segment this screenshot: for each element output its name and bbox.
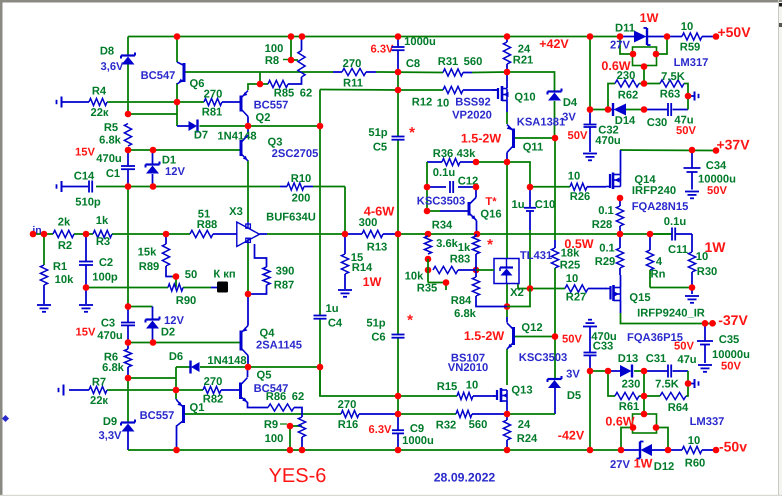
transistor Q5 [239,383,242,400]
svg-text:R87: R87 [274,280,295,292]
capacitor C2 [79,261,93,263]
tl431 X2 [494,259,519,284]
svg-text:LM317: LM317 [674,57,709,69]
svg-text:10k: 10k [55,274,74,286]
svg-text:3,3V: 3,3V [98,430,122,442]
svg-text:50V: 50V [676,125,696,137]
svg-text:BUF634U: BUF634U [266,212,316,224]
svg-text:-37V: -37V [718,312,748,328]
svg-text:D11: D11 [615,23,635,35]
ground C2 [79,304,93,306]
svg-text:Q6: Q6 [190,78,205,90]
wire R30 column [691,234,693,252]
svg-text:6.3V: 6.3V [368,424,392,436]
capacitor C1 [121,165,135,167]
wire D2 column [152,307,154,319]
svg-text:Q2: Q2 [256,112,271,124]
svg-text:R29: R29 [595,256,616,268]
resistor R28 [616,206,623,226]
svg-text:R88: R88 [197,219,218,231]
svg-text:R14: R14 [352,262,373,274]
svg-text:1k: 1k [96,215,109,227]
svg-text:+50V: +50V [717,24,751,40]
svg-text:*: * [409,125,415,142]
wire Q16 emitter to rail [476,221,478,235]
wire C33 column [589,327,591,352]
capacitor C31 [667,365,669,378]
svg-text:C35: C35 [719,334,740,346]
svg-text:15V: 15V [76,327,96,339]
transistor Q6 [183,63,186,82]
junction C12 [424,184,431,191]
svg-text:D4: D4 [563,97,578,109]
junction LM317 pins [630,51,637,58]
wire R27 row y=288.5 [530,288,565,290]
svg-text:IRFP240: IRFP240 [632,185,676,197]
svg-text:D5: D5 [567,390,581,402]
ground C32 [583,153,597,155]
svg-text:C30: C30 [647,117,668,129]
wire Q15 source to -37V rail [620,301,622,314]
wire R85 node to y=72 row [259,72,261,84]
junction D8 top rail [174,33,181,40]
wire row y=186.5 C14 to R10 [96,186,280,188]
zener D8 [121,54,135,56]
window border left/top [0,0,782,3]
svg-text:R62: R62 [618,90,639,102]
wire rail y=367 [176,366,190,368]
svg-text:470u: 470u [595,135,621,147]
svg-text:6.8k: 6.8k [102,362,125,374]
wire R87 hookup [255,244,267,267]
capacitor C35 [697,340,713,342]
wire R13 leads [345,233,362,235]
svg-text:R30: R30 [697,266,718,278]
wire +42V/+37V rail [620,149,716,152]
wire Q6 collector/emitter column x=177 [176,37,178,63]
svg-text:270: 270 [204,89,223,101]
svg-text:KSA1381: KSA1381 [517,117,566,129]
wire R89 tap to R90 [175,277,177,288]
svg-text:BC557: BC557 [254,100,289,112]
wire R9 bottom [301,437,303,450]
resistor R16 [341,410,359,417]
resistor R61 [615,392,639,399]
svg-text:50V: 50V [562,334,582,346]
zener D1 [146,163,160,165]
wire Q14 drain [620,150,622,175]
junction output R28 [617,231,624,238]
wire Q13 source to y=414 [506,401,508,414]
junction +50V [713,33,720,40]
svg-text:1u: 1u [511,199,524,211]
svg-text:*: * [407,312,413,329]
junction C8 top [395,33,402,40]
svg-text:T*: T* [485,196,497,208]
svg-text:R13: R13 [367,242,388,254]
svg-text:C1: C1 [106,168,120,180]
svg-text:Q13: Q13 [511,385,532,397]
resistor R81 [204,98,222,105]
wire R84 [475,270,477,277]
wire R85 left to Q2 emitter [248,84,268,90]
svg-text:R31: R31 [438,56,459,68]
wire Q3 leads [247,126,249,134]
wire y=414 row right [398,413,456,415]
junction Q2-Q3-D7 [245,123,252,130]
junction rail R34 [425,231,432,238]
wire R9 tap [290,425,302,427]
wire R6 segment [127,343,129,350]
svg-text:C33: C33 [593,341,614,353]
wire R81 leads [177,101,204,103]
svg-text:+42V: +42V [539,37,569,51]
wire x=176 column [175,367,177,399]
diode D7 [189,121,198,131]
junction in [30,231,37,238]
svg-text:Q1: Q1 [190,402,205,414]
svg-text:R11: R11 [343,78,363,90]
svg-text:R8: R8 [265,55,279,67]
svg-text:4-6W: 4-6W [364,204,395,219]
svg-text:К кп: К кп [213,269,235,281]
svg-text:BC547: BC547 [141,70,176,82]
junction C3-D2 bottom [125,339,132,346]
resistor R36 [442,158,460,165]
svg-text:Q3: Q3 [268,137,283,149]
wire Q4 collector to rail [247,356,249,368]
svg-text:VP2020: VP2020 [452,110,492,122]
junction R4-Q6 [174,99,181,106]
resistor R26 [570,183,587,190]
wire TL431 ref pin [518,284,530,289]
junction Q1 collector [173,447,180,454]
svg-text:230: 230 [617,70,636,82]
svg-text:1W: 1W [363,275,382,289]
svg-text:22к: 22к [90,395,108,407]
mosfet Q13 [496,390,498,400]
svg-text:50V: 50V [568,130,588,142]
resistor R7 [89,386,107,393]
resistor R60 [682,446,702,453]
scrollbar right edge [779,2,782,498]
junction R85-Q2 [257,81,264,88]
svg-text:270: 270 [204,376,223,388]
junction Q13-R24-R32 [504,411,511,418]
svg-text:Q12: Q12 [521,322,542,334]
svg-text:24: 24 [518,419,531,431]
svg-text:50: 50 [185,269,197,281]
capacitor C9 [392,429,404,431]
capacitor C11 [671,228,673,241]
ground Rn-R30 [685,295,699,297]
junction LM337 pins [641,411,648,418]
svg-text:R82: R82 [203,394,224,406]
capacitor C33 [584,352,597,354]
svg-text:R2: R2 [58,240,72,252]
svg-text:R86: R86 [266,391,287,403]
wire top +rail y=36.5 [128,36,620,38]
resistor R85 [268,80,288,87]
wire pin at R63 [688,95,694,97]
wire Q1 collector [176,426,178,451]
junction rail R13-R14 [342,231,349,238]
svg-text:1000u: 1000u [404,36,436,48]
svg-text:1N4148: 1N4148 [207,355,246,367]
wire R12 row y=90 [398,89,443,91]
svg-text:R60: R60 [685,458,706,470]
svg-text:R36: R36 [433,148,454,160]
resistor R88 [190,230,213,237]
wire y=72 to D4 column [507,72,555,91]
svg-text:VN2010: VN2010 [448,362,488,374]
wire base row Q6 y=72 [186,71,334,73]
svg-text:Q11: Q11 [523,142,544,154]
resistor R34 [424,236,431,254]
wire R34-R35 jog [427,259,429,283]
junction rail x398 [395,231,402,238]
wire R15 row y=396 [398,395,457,397]
wire Q16 collector column [475,187,477,198]
svg-text:Q5: Q5 [257,370,272,382]
svg-text:R64: R64 [668,402,689,414]
junction Q14 source [617,195,624,202]
resistor R27 [565,285,588,292]
wire R7 row y=390 [69,389,89,391]
resistor R31 [443,69,463,76]
svg-text:C11: C11 [668,244,688,256]
svg-text:R24: R24 [517,433,538,445]
svg-text:R34: R34 [432,220,453,232]
wire R89 column [165,234,167,244]
wire R8 bottom to R85 [296,77,302,84]
svg-text:1k: 1k [458,242,471,254]
regulator LM337 body [633,414,657,433]
junction rail-x320 bottom [317,364,324,371]
svg-text:TL431: TL431 [520,250,552,262]
wire R88 lead to opamp [213,233,237,235]
capacitor C10 [524,207,536,209]
junction R62-R63 [641,80,648,87]
svg-text:43k: 43k [457,148,476,160]
svg-text:12V: 12V [164,315,184,327]
wire D8 column x=128 top [127,37,129,55]
wire R35 row y=270 [458,269,476,271]
wire C14 lead [63,186,89,188]
wire D11 leads [620,36,635,38]
pin terminal R63 [694,92,696,101]
svg-text:LM337: LM337 [690,416,725,428]
junction C33 bottom [587,368,594,375]
wire R6-D6 jog y=378 [128,377,176,379]
ground R14 [338,289,352,291]
junction R8 tap [288,57,295,64]
junction R84-TL431 node [504,303,511,310]
junction C10 top [527,184,534,191]
svg-text:50V: 50V [707,185,727,197]
wire Q12 emitter to Q13 [506,349,508,385]
resistor R5 [124,124,131,147]
resistor R32 [456,410,472,417]
svg-text:Q16: Q16 [480,209,501,221]
svg-text:R25: R25 [560,260,581,272]
zener D5 [548,378,562,380]
svg-text:D9: D9 [103,416,117,428]
resistor R64 [660,392,686,399]
wire pin at R64 [688,383,694,385]
diode D12 zener 27V [641,444,653,456]
svg-text:510p: 510p [75,197,101,209]
junction D11 left [617,33,624,40]
svg-text:IRFP9240_IR: IRFP9240_IR [637,308,705,320]
junction R7-Q1 [173,387,180,394]
junction C8 bottom [395,69,402,76]
wire C2 column [85,234,87,262]
svg-text:3.6k: 3.6k [436,238,459,250]
svg-text:Rn: Rn [651,269,666,281]
svg-text:R28: R28 [592,219,613,231]
svg-text:1u: 1u [325,303,338,315]
junction R34 bottom [425,256,432,263]
svg-text:C10: C10 [535,199,556,211]
junction R64 pin [685,380,692,387]
wire R60 leads [668,449,682,451]
transistor Q12 [512,327,515,345]
svg-text:Q15: Q15 [629,292,650,304]
wire LM337 connections [621,428,633,451]
junction Q11 collector [504,159,511,166]
pin terminal R64 [694,379,696,388]
wire R14 column [344,234,346,254]
wire y=306.5 to D2 [128,306,153,308]
junction R21 bottom [504,69,511,76]
resistor R86 [268,404,294,411]
svg-text:D13: D13 [618,353,639,365]
svg-text:C9: C9 [410,423,424,435]
svg-text:R63: R63 [660,89,681,101]
resistor R29 [616,248,623,268]
svg-text:10: 10 [568,171,580,183]
resistor R21 [503,42,510,64]
svg-text:7.5K: 7.5K [655,379,679,391]
ground C35 [698,364,712,366]
wire mid column x=320 [320,89,398,92]
zener D2 [146,318,160,320]
junction R2-R3 [83,231,90,238]
svg-text:C4: C4 [328,318,343,330]
resistor R12 [443,86,463,93]
wire D1 column [152,150,154,165]
svg-text:200: 200 [292,193,311,205]
svg-text:230: 230 [622,379,641,391]
svg-text:15k: 15k [138,247,157,259]
junction R35 jog [443,279,450,286]
svg-text:12V: 12V [165,166,185,178]
svg-text:3V: 3V [566,369,580,381]
pin terminal R7 [63,385,65,396]
junction R35 right [473,267,480,274]
wire bottom -rail y=450 [128,449,621,451]
svg-text:10: 10 [688,435,700,447]
svg-text:390: 390 [276,266,295,278]
svg-text:C3: C3 [101,318,115,330]
resistor R25 [551,248,558,268]
transistor Q16 [468,202,471,216]
transistor Q11 [512,129,515,149]
svg-text:2SA1145: 2SA1145 [256,340,302,352]
svg-text:6.8k: 6.8k [454,308,477,320]
svg-text:R61: R61 [619,401,640,413]
wire x=507 TL431 column [506,162,508,240]
junction D13 row [605,368,612,375]
svg-text:51p: 51p [368,127,387,139]
wire R8 tap column [290,37,292,61]
svg-text:D8: D8 [100,46,114,58]
svg-text:1W: 1W [640,11,659,25]
resistor R6 [124,349,131,367]
svg-text:10: 10 [696,251,708,263]
svg-text:R9: R9 [264,419,278,431]
svg-text:62: 62 [300,88,312,100]
wire C12 row y=187 [427,186,446,188]
svg-text:0.5W: 0.5W [564,237,593,251]
capacitor C6 [392,334,405,336]
svg-text:51p: 51p [366,318,385,330]
svg-text:R10: R10 [291,173,312,185]
svg-text:0.1: 0.1 [598,205,614,217]
resistor R90 [168,284,183,291]
junction D12 left [618,447,625,454]
wire output rail y=234 [398,233,672,235]
svg-text:560: 560 [469,419,488,431]
zener D9 [121,421,135,423]
junction D7 feed [125,111,132,118]
wire R82 row [176,389,203,391]
svg-text:BSS92: BSS92 [455,97,490,109]
junction rail-x320 [317,123,324,130]
svg-text:R5: R5 [104,122,118,134]
svg-text:-42V: -42V [558,429,585,443]
wire R83 [475,234,477,236]
resistor R89 [162,244,169,266]
svg-text:560: 560 [464,56,483,68]
wire Q16 base [427,210,440,212]
wire R11 leads [333,71,342,73]
wire R16 leads [359,413,398,415]
junction R63 pin [685,93,692,100]
svg-text:2SC2705: 2SC2705 [272,148,319,160]
wire D14 C30 row y=109.5 [590,109,608,111]
svg-text:470u: 470u [97,330,123,342]
diode D13 [620,365,632,377]
capacitor C4 [314,315,327,317]
resistor R84 [472,277,479,296]
junction output Rn [647,231,654,238]
svg-text:X2: X2 [510,287,524,299]
wire Rn column [649,234,651,250]
svg-text:R26: R26 [570,191,591,203]
svg-text:R90: R90 [176,295,197,307]
svg-text:R3: R3 [96,236,110,248]
wire R90 row y=287.5 [86,287,168,289]
svg-text:D6: D6 [169,351,183,363]
svg-text:C5: C5 [373,142,387,154]
wire y=162 to C10 column [507,162,530,187]
transistor Q1 [182,405,185,423]
svg-text:470u: 470u [96,153,122,165]
resistor R59 [682,33,702,40]
svg-text:7,5K: 7,5K [661,71,685,83]
